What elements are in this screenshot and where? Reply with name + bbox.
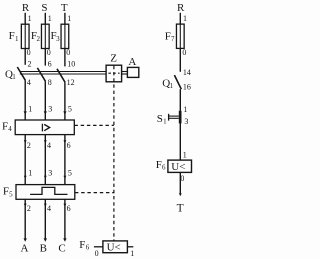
svg-text:1: 1 — [67, 14, 71, 23]
svg-text:R: R — [22, 2, 30, 14]
svg-text:T: T — [61, 2, 68, 14]
svg-text:1: 1 — [28, 105, 32, 114]
svg-text:3: 3 — [56, 35, 60, 43]
trip coil Z — [106, 53, 122, 82]
svg-text:S: S — [157, 113, 163, 125]
svg-text:6: 6 — [67, 204, 71, 213]
svg-text:4: 4 — [47, 141, 51, 150]
thermal/pulse relay F5 — [3, 185, 75, 200]
pin 4 of F5 with arrow — [44, 204, 51, 214]
svg-text:0: 0 — [66, 48, 70, 57]
wire phase T top — [64, 13, 66, 67]
svg-text:3: 3 — [48, 169, 52, 178]
mechanical linkage (double line Q1 to Z) — [20, 72, 106, 75]
pin 4 of F4 with arrow — [44, 140, 51, 150]
svg-text:U<: U< — [107, 241, 121, 253]
wire to terminal B — [44, 199, 46, 239]
wire phase R lower — [24, 135, 26, 185]
pin 2 of F5 with arrow — [24, 204, 31, 214]
svg-text:2: 2 — [27, 204, 31, 213]
fuse F3 — [51, 14, 72, 57]
svg-text:5: 5 — [68, 105, 72, 114]
undervoltage relay F6 (right) — [156, 151, 192, 183]
svg-text:F: F — [79, 239, 85, 251]
svg-text:F: F — [3, 186, 9, 198]
contactor Q1 pole 2 contact — [37, 59, 51, 87]
pin 1 of F4 with arrow — [24, 105, 33, 115]
svg-text:A: A — [128, 56, 136, 68]
svg-text:6: 6 — [48, 59, 52, 68]
svg-text:16: 16 — [183, 83, 191, 92]
svg-text:2: 2 — [27, 141, 31, 150]
svg-text:4: 4 — [8, 125, 12, 133]
pin 3 of F4 with arrow — [44, 105, 53, 115]
wire phase S middle — [44, 81, 46, 120]
svg-text:1: 1 — [12, 73, 16, 81]
pin 5 of F4 with arrow — [63, 105, 72, 115]
svg-text:1: 1 — [48, 14, 52, 23]
svg-text:A: A — [21, 243, 29, 255]
svg-text:T: T — [177, 202, 184, 214]
svg-text:F: F — [9, 30, 15, 42]
svg-text:0: 0 — [27, 48, 31, 57]
svg-text:6: 6 — [86, 244, 90, 252]
wire phase R middle — [24, 80, 26, 120]
svg-text:2: 2 — [28, 59, 32, 68]
svg-text:U<: U< — [171, 161, 185, 173]
arrow terminal A — [24, 238, 27, 241]
arrow terminal B — [44, 238, 47, 241]
fuse F1 — [9, 14, 32, 57]
svg-text:1: 1 — [183, 151, 187, 160]
svg-text:14: 14 — [183, 68, 191, 77]
wire phase T middle — [64, 82, 66, 120]
mechanical linkage (Z to A) — [122, 72, 128, 75]
svg-text:R: R — [177, 2, 185, 14]
svg-text:F: F — [156, 159, 162, 171]
svg-text:F: F — [165, 30, 171, 42]
undervoltage relay F6 (bottom) — [79, 239, 134, 258]
pin 3 of F5 with arrow — [44, 169, 52, 179]
svg-text:1: 1 — [130, 249, 134, 258]
svg-text:S: S — [41, 2, 47, 14]
pin 1 of F5 with arrow — [24, 169, 32, 179]
svg-text:3: 3 — [48, 105, 52, 114]
switch S1 — [157, 105, 189, 126]
pin 6 of F4 with arrow — [64, 140, 71, 150]
contactor Q1 (label) — [5, 68, 16, 81]
wire phase R top — [24, 13, 26, 65]
svg-text:5: 5 — [9, 190, 13, 198]
svg-text:0: 0 — [182, 48, 186, 57]
svg-text:1: 1 — [163, 117, 167, 125]
svg-text:1: 1 — [170, 82, 174, 90]
svg-text:1: 1 — [28, 169, 32, 178]
svg-text:7: 7 — [171, 35, 175, 43]
overcurrent relay F4 — [2, 120, 74, 135]
arrow terminal T — [179, 193, 182, 196]
svg-text:8: 8 — [48, 78, 52, 87]
svg-text:B: B — [40, 243, 47, 255]
svg-text:2: 2 — [37, 35, 41, 43]
svg-text:4: 4 — [27, 78, 31, 87]
dashed link F5 to trip line — [75, 192, 114, 194]
svg-text:0: 0 — [47, 48, 51, 57]
dashed link F4 to trip line — [75, 124, 114, 126]
auxiliary contact Q1 — [162, 68, 191, 92]
svg-text:6: 6 — [162, 164, 166, 172]
arrow terminal C — [63, 238, 66, 241]
svg-text:10: 10 — [67, 59, 75, 68]
svg-text:C: C — [58, 243, 65, 255]
svg-text:Z: Z — [110, 53, 117, 65]
dashed trip line (vertical from Z) — [113, 66, 115, 241]
contactor Q1 pole 1 contact — [17, 59, 31, 87]
fuse F7 — [165, 14, 187, 57]
svg-text:6: 6 — [67, 141, 71, 150]
wire right column top — [179, 13, 181, 72]
wire phase S top — [44, 13, 46, 66]
wire right column middle — [179, 89, 181, 160]
svg-text:5: 5 — [68, 169, 72, 178]
fuse F2 — [31, 14, 52, 57]
wire phase S lower — [44, 135, 46, 185]
wire to terminal T — [179, 172, 181, 193]
actuator A — [127, 56, 138, 77]
pin 6 of F5 with arrow — [64, 204, 71, 214]
svg-text:1: 1 — [28, 14, 32, 23]
svg-text:3: 3 — [184, 117, 188, 126]
wire to terminal A — [24, 199, 26, 239]
svg-text:1: 1 — [15, 35, 19, 43]
svg-text:1: 1 — [183, 14, 187, 23]
svg-text:4: 4 — [47, 204, 51, 213]
svg-text:1: 1 — [183, 105, 187, 114]
svg-text:0: 0 — [95, 249, 99, 258]
pin 2 of F4 with arrow — [24, 140, 31, 150]
contactor Q1 pole 3 contact — [57, 59, 75, 87]
svg-text:12: 12 — [67, 78, 75, 87]
wire phase T lower — [64, 135, 66, 185]
wire to terminal C — [64, 199, 66, 239]
pin 5 of F5 with arrow — [64, 169, 72, 179]
